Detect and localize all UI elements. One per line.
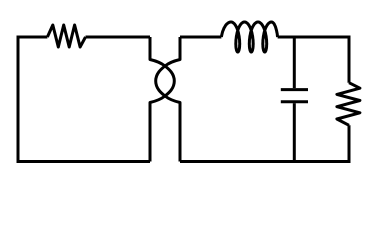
wire: inductor to top-right corner, down to R2 [278, 37, 349, 83]
capacitor C1 top plate [281, 88, 308, 91]
wire: left loop top, R1 to transformer [86, 36, 151, 39]
capacitor C1 bottom plate [281, 100, 308, 103]
wire: capacitor C1 bottom lead [293, 103, 296, 161]
transformer T1 left wire (crossed-twist symbol) [150, 37, 174, 162]
wire: capacitor C1 top lead [293, 37, 296, 88]
resistor R2 (shunt, right edge) [337, 83, 360, 126]
inductor L1 (series, right loop top) [221, 22, 277, 52]
wire: R2 to bottom-right corner, bottom wire to transformer [180, 125, 349, 161]
wire: right loop top, transformer to inductor [180, 36, 221, 39]
resistor R1 (series, left loop top) [47, 25, 85, 47]
transformer T1 right wire (crossed-twist symbol) [156, 37, 180, 162]
wire: left loop frame (left, bottom, top-left stub) [18, 37, 150, 162]
